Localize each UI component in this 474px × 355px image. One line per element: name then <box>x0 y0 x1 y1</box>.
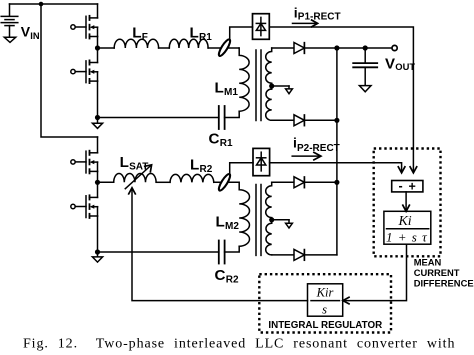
inductor LM1 <box>239 48 249 111</box>
arrow into Kir <box>343 297 349 304</box>
block Kir <box>308 284 343 316</box>
wire Q1 source to mid node <box>97 37 99 63</box>
transformer T2 secondary upper <box>266 182 272 223</box>
svg-text:+: + <box>409 180 416 194</box>
wire sensor to rectifier box 1 <box>230 27 253 40</box>
wire LM1 bottom to CR1 <box>225 111 240 117</box>
svg-text:C: C <box>209 131 220 148</box>
svg-text:M1: M1 <box>224 87 238 98</box>
battery VIN <box>1 4 18 37</box>
svg-text:R1: R1 <box>199 32 212 43</box>
wire T1 center tap <box>272 85 289 87</box>
inductor LR1 <box>169 39 208 48</box>
label LM1 <box>215 80 239 99</box>
wire Q4 source to ground node 2 <box>97 216 99 252</box>
svg-text:L: L <box>120 154 129 171</box>
ground phase 2 <box>92 252 102 262</box>
wire LSAT to LR2 <box>156 181 170 183</box>
wire regulator output to LSAT <box>132 190 308 301</box>
wire LR2 to LM2 <box>214 181 239 183</box>
terminal VOUT <box>392 45 397 50</box>
ground T2 center tap <box>286 220 293 228</box>
arrow iP1 into summer <box>410 167 417 173</box>
svg-text:V: V <box>21 23 31 39</box>
label mean current difference <box>414 256 474 288</box>
transformer T1 secondary lower <box>266 89 272 120</box>
wire mid node to LF <box>98 47 115 49</box>
label Ki fraction <box>386 214 428 245</box>
current sensor phase 2 <box>217 173 232 192</box>
wire T1 secondary bottom to D2 <box>272 119 295 121</box>
wire T1 secondary top to D1 <box>272 47 295 49</box>
wire mid node 2 to LSAT <box>98 181 114 183</box>
wire rectifier 2 output to control <box>270 163 402 172</box>
wire Q3 drain to rail 2 <box>97 137 99 153</box>
svg-text:OUT: OUT <box>395 61 415 72</box>
capacitor COUT <box>353 48 377 86</box>
arrow annotation iP1 <box>293 20 318 27</box>
svg-text:Fig. 12. Two-phase interleave: Fig. 12. Two-phase interleaved LLC reson… <box>23 337 455 352</box>
svg-text:R2: R2 <box>200 164 213 175</box>
inductor LSAT <box>114 174 156 183</box>
node T1 center tap <box>269 83 274 88</box>
transformer T1 core <box>256 50 261 121</box>
svg-text:R1: R1 <box>220 138 233 149</box>
wire LF to LR1 <box>159 47 170 49</box>
svg-text:V: V <box>385 55 395 72</box>
rectifier box U1 <box>253 14 270 40</box>
transformer T2 secondary lower <box>266 223 272 255</box>
svg-text:Kir: Kir <box>316 286 334 300</box>
wire cathode bus <box>336 48 338 255</box>
svg-text:MEAN: MEAN <box>414 256 442 267</box>
wire D3 to bus <box>304 181 337 183</box>
label iP2-RECT <box>293 135 340 154</box>
svg-text:L: L <box>215 80 224 97</box>
label LM2 <box>216 213 240 232</box>
wire Q2 source to ground node <box>97 81 99 117</box>
arrow LSAT variable <box>125 165 151 189</box>
inductor LR2 <box>170 174 214 182</box>
label LF <box>132 24 148 43</box>
node D-bus D3 <box>334 180 339 185</box>
label iP1-RECT <box>294 5 341 23</box>
capacitor CR2 <box>219 241 225 264</box>
arrow summer to Ki <box>403 192 410 211</box>
label LR2 <box>190 157 213 176</box>
node T2 center tap <box>269 217 274 222</box>
svg-text:L: L <box>190 157 199 174</box>
ground T1 center tap <box>286 86 293 94</box>
diode D4 <box>294 249 304 260</box>
wire Q3 source to mid node 2 <box>97 171 99 197</box>
wire sensor 2 to rectifier box 2 <box>230 163 253 175</box>
svg-text:P2-RECT: P2-RECT <box>297 143 340 154</box>
block Ki <box>384 211 431 244</box>
node mid phase 1 <box>95 45 100 50</box>
svg-text:INTEGRAL REGULATOR: INTEGRAL REGULATOR <box>268 320 382 331</box>
wire Ki output to integral regulator <box>344 244 407 300</box>
label VOUT <box>385 55 415 72</box>
transistor Q3 <box>71 151 98 174</box>
label LR1 <box>190 24 213 43</box>
svg-text:L: L <box>132 24 141 41</box>
wire input bus to phase 2 <box>41 4 98 137</box>
wire rectifier 1 output to control <box>269 27 413 172</box>
label LSAT <box>120 154 149 173</box>
svg-text:C: C <box>215 267 226 284</box>
label VIN <box>21 23 40 41</box>
arrow iP2 into summer <box>398 167 405 173</box>
label integral regulator <box>268 320 382 331</box>
wire LR1 to LM1 <box>208 47 239 49</box>
summer box <box>392 181 423 192</box>
wire Q1 drain to rail <box>97 4 99 18</box>
wire D1 to output rail <box>304 47 392 49</box>
svg-text:L: L <box>190 24 199 41</box>
transistor Q1 <box>71 16 98 39</box>
svg-text:P1-RECT: P1-RECT <box>298 12 341 23</box>
rectifier box U2 <box>253 148 270 175</box>
capacitor CR1 <box>219 106 225 129</box>
node mid phase 2 <box>95 180 100 185</box>
svg-text:DIFFERENCE: DIFFERENCE <box>414 277 474 288</box>
label Kir fraction <box>316 286 334 317</box>
wire T2 center tap <box>272 219 289 221</box>
node ground phase 2 <box>95 249 100 254</box>
wire T2 secondary bottom to D4 <box>272 254 295 256</box>
transistor Q2 <box>71 60 98 83</box>
node top bus junction <box>39 2 44 7</box>
svg-text:F: F <box>142 32 148 43</box>
svg-text:R2: R2 <box>226 275 239 286</box>
ground output <box>359 86 371 92</box>
diode D3 <box>294 177 304 188</box>
label CR1 <box>209 131 234 150</box>
wire D2 to bus <box>304 119 337 121</box>
transformer T2 core <box>256 185 261 256</box>
svg-text:SAT: SAT <box>129 161 148 172</box>
wire LM2 bottom to CR2 <box>225 246 240 252</box>
box integral regulator <box>259 274 391 332</box>
inductor LF <box>114 39 158 48</box>
arrow control to LSAT <box>129 188 136 194</box>
diode D1 <box>294 43 304 54</box>
svg-text:1 + s τ: 1 + s τ <box>386 230 428 245</box>
transistor Q4 <box>71 195 98 218</box>
svg-text:s: s <box>322 303 327 317</box>
svg-text:Ki: Ki <box>397 214 411 229</box>
svg-text:M2: M2 <box>225 221 239 232</box>
ground under battery <box>4 37 15 42</box>
svg-text:IN: IN <box>30 31 40 41</box>
caption <box>23 337 455 352</box>
node D-bus top <box>334 45 339 50</box>
ground phase 1 <box>92 118 102 129</box>
node D-bus D2 <box>334 118 339 123</box>
label summer <box>399 179 416 194</box>
wire D4 to bus <box>304 254 337 256</box>
svg-text:L: L <box>216 213 225 230</box>
node output cap <box>363 45 368 50</box>
diode D2 <box>294 115 304 126</box>
wire bottom rail phase 1 <box>98 117 219 119</box>
node ground phase 1 <box>95 115 100 120</box>
box mean current difference <box>374 149 441 257</box>
transformer T1 secondary upper <box>266 48 272 89</box>
wire bottom rail phase 2 <box>98 251 219 253</box>
arrow annotation iP2 <box>292 152 321 159</box>
svg-text:-: - <box>399 179 403 193</box>
wire top rail phase 1 <box>10 3 98 5</box>
label CR2 <box>215 267 240 286</box>
wire T2 secondary top to D3 <box>272 181 295 183</box>
inductor LM2 <box>239 182 250 246</box>
current sensor phase 1 <box>217 38 232 57</box>
